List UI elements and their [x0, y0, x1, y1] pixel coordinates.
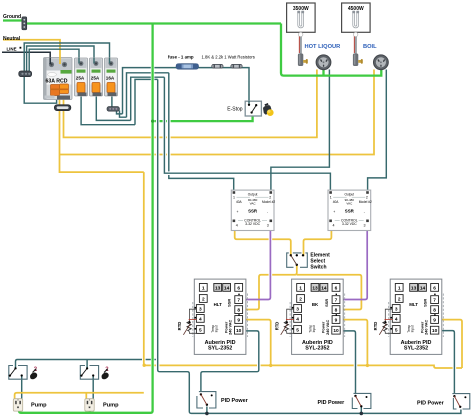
wire RCD neutral out stub b	[63, 99, 65, 106]
svg-text:Model #2: Model #2	[359, 200, 372, 204]
wire pump1 switch to receptacle	[21, 376, 23, 400]
svg-text:Input: Input	[312, 325, 316, 332]
wire riser to SSR2 feed	[131, 77, 165, 120]
wire SSR2 control minus to ESS	[304, 222, 332, 256]
svg-text:240 VAC: 240 VAC	[425, 319, 429, 334]
pump receptacle 2	[85, 399, 94, 411]
junction switch1 on bottom bus	[205, 412, 209, 416]
wire PID bottom hot bus stub sw2	[360, 407, 362, 414]
svg-text:8: 8	[433, 308, 436, 314]
junction PID1 t9 on neutral bus	[269, 364, 272, 367]
wire RCD bottom-left loop	[24, 77, 56, 104]
svg-text:Input: Input	[411, 325, 415, 332]
svg-text:2: 2	[398, 297, 401, 303]
junction neutral bus corner	[143, 364, 146, 367]
svg-text:14: 14	[420, 285, 426, 291]
svg-text:SSR: SSR	[324, 299, 329, 307]
wire SSR1 control minus to ESS	[235, 222, 291, 256]
svg-text:Neutral: Neutral	[3, 36, 21, 42]
wire block staircase to SSR1 riser	[120, 111, 127, 118]
RTD probe 2	[274, 309, 294, 335]
svg-text:7: 7	[433, 298, 436, 304]
svg-text:MLT: MLT	[409, 302, 418, 307]
resistor R2 2.2K	[231, 64, 242, 68]
SSR U1	[231, 190, 275, 230]
svg-text:6: 6	[335, 285, 338, 291]
svg-text:25A: 25A	[76, 76, 85, 81]
wire PID3 t10 to switch3	[438, 331, 455, 394]
svg-text:13: 13	[312, 285, 318, 291]
svg-text:SSR: SSR	[345, 209, 355, 214]
PID power switch 2	[352, 393, 371, 408]
wire PID1 t10 to switch1	[201, 331, 259, 392]
svg-text:1: 1	[398, 285, 401, 291]
svg-text:13: 13	[411, 285, 417, 291]
wire PID1 t9 neutral	[243, 320, 271, 366]
Auberin PID 1 (HLT)	[193, 279, 248, 354]
wire ground bus top left	[3, 19, 22, 21]
svg-text:1: 1	[233, 196, 235, 200]
resistor R1 1.8K	[212, 64, 223, 68]
wire pump2 switch feed drop	[86, 360, 88, 369]
svg-text:4: 4	[395, 316, 398, 322]
wire BOIL outlet hot to SSR2 out	[368, 70, 387, 191]
svg-text:SSR: SSR	[248, 209, 258, 214]
svg-text:SYL-2352: SYL-2352	[305, 346, 329, 352]
element box 4500W	[342, 3, 371, 32]
svg-text:2: 2	[299, 297, 302, 303]
svg-text:25A: 25A	[91, 76, 100, 81]
svg-text:E-Stop: E-Stop	[227, 106, 243, 112]
wire SSR1 control plus purple to PID1 t7	[243, 222, 271, 300]
svg-text:PID Power: PID Power	[318, 400, 346, 406]
wire RCD-out riser C to breaker 1	[29, 49, 79, 71]
svg-text:1.8K & 2.2k 1 Watt Resistors: 1.8K & 2.2k 1 Watt Resistors	[202, 54, 255, 59]
pump switch 2	[80, 366, 98, 380]
junction ground riser estop branch	[151, 120, 154, 123]
wire stub 16A top terminal	[109, 58, 111, 64]
svg-text:14: 14	[321, 285, 327, 291]
circuit breaker 63A RCD	[44, 58, 73, 100]
wire pump2 neutral drop	[85, 393, 87, 400]
BK element cord	[354, 32, 358, 54]
svg-text:6: 6	[433, 285, 436, 291]
svg-text:3-32 VDC: 3-32 VDC	[342, 222, 357, 226]
wire breaker2 bottom loop	[96, 97, 130, 121]
svg-text:1: 1	[202, 285, 205, 291]
wire 16A breaker to block	[111, 97, 113, 107]
svg-text:13: 13	[215, 285, 221, 291]
svg-text:4: 4	[236, 224, 238, 228]
wire neutral branch to pump bus	[60, 111, 144, 173]
svg-text:fuse - 1 amp: fuse - 1 amp	[168, 54, 194, 59]
wire ground stub pump2	[89, 410, 91, 413]
svg-text:+: +	[333, 210, 335, 214]
svg-text:8: 8	[335, 308, 338, 314]
svg-text:1: 1	[299, 285, 302, 291]
svg-text:3: 3	[296, 307, 299, 313]
circuit breaker 16A	[105, 58, 118, 96]
svg-text:3500W: 3500W	[293, 6, 309, 12]
svg-text:5: 5	[296, 328, 299, 334]
PID power switch 3	[452, 394, 469, 409]
wire LINE hot to RCD	[2, 52, 50, 57]
wire fuse control line	[123, 68, 250, 114]
wire ESS common to PID2 t8	[297, 275, 362, 310]
wire neutral feed	[3, 40, 60, 57]
HL twist-lock receptacle	[316, 55, 331, 70]
wire riser to pump feed	[135, 79, 158, 124]
svg-text:VAC: VAC	[346, 202, 353, 206]
svg-text:1: 1	[330, 196, 332, 200]
svg-text:BK: BK	[312, 302, 319, 307]
svg-text:9: 9	[237, 318, 240, 324]
junction PID2 t9 on neutral bus	[366, 364, 369, 367]
wire ground bus top right	[27, 22, 281, 24]
circuit breaker 25A no2	[90, 58, 103, 96]
wire RCD neutral out stub a	[59, 99, 61, 106]
svg-text:RTD: RTD	[177, 322, 182, 331]
svg-text:Model #2: Model #2	[262, 200, 275, 204]
wire PID3 t9 neutral	[438, 320, 462, 368]
svg-text:Output: Output	[248, 193, 258, 197]
Auberin PID 2 (BK)	[290, 279, 345, 354]
svg-text:-: -	[267, 210, 268, 214]
svg-text:+: +	[237, 210, 239, 214]
wire hot main riser to bottom bus	[158, 79, 461, 413]
svg-text:VAC: VAC	[250, 202, 257, 206]
terminal block ground top	[22, 17, 27, 30]
fuse F1 1 amp	[176, 64, 198, 70]
wire PID bottom hot bus stub sw1	[206, 407, 208, 414]
wire pump hot bus	[16, 360, 158, 369]
wire RCD-out riser B to breaker 2	[27, 46, 94, 72]
svg-text:RTD: RTD	[274, 322, 279, 331]
element select switch	[287, 253, 308, 267]
svg-text:4: 4	[296, 316, 299, 322]
BOIL twist-lock receptacle	[374, 55, 389, 70]
svg-text:3: 3	[199, 307, 202, 313]
svg-text:10: 10	[333, 328, 339, 334]
svg-text:HOT LIQOUR: HOT LIQOUR	[305, 44, 341, 50]
wire riser to SSR1 feed	[127, 73, 169, 117]
HL element cord	[299, 32, 303, 54]
svg-text:Input: Input	[215, 325, 219, 332]
svg-text:4500W: 4500W	[348, 6, 364, 12]
PID power switch 1	[197, 392, 216, 408]
wire SSR2 feed lower	[164, 77, 330, 190]
svg-text:8: 8	[237, 308, 240, 314]
E-stop button icon	[263, 104, 274, 116]
svg-text:5: 5	[199, 328, 202, 334]
svg-text:3: 3	[267, 224, 269, 228]
svg-text:SYL-2352: SYL-2352	[208, 346, 232, 352]
wire pump neutral bus	[15, 393, 144, 400]
wire pump2 switch to receptacle	[92, 376, 94, 400]
wire E-stop ground	[151, 113, 253, 121]
svg-text:14: 14	[224, 285, 230, 291]
svg-text:Pump: Pump	[103, 402, 119, 408]
wire PID2 t9 neutral	[340, 320, 368, 366]
wire RCD-out riser A to 16A breaker	[24, 43, 109, 72]
wire neutral branch BOIL outlet	[60, 70, 375, 155]
svg-text:LINE: LINE	[7, 46, 17, 51]
svg-text:240 VAC: 240 VAC	[326, 319, 330, 334]
svg-text:Output: Output	[345, 193, 355, 197]
wire SSR2 control plus purple to PID2 t7	[340, 222, 367, 300]
terminal block neutral out	[54, 105, 70, 111]
SSR U2	[328, 190, 372, 230]
wire stub RCD top hot	[49, 58, 51, 65]
pump switch 1 icon with red 2	[30, 367, 38, 379]
svg-text:BOIL: BOIL	[363, 44, 377, 50]
svg-text:2: 2	[202, 297, 205, 303]
svg-text:7: 7	[335, 298, 338, 304]
svg-text:Ground: Ground	[3, 14, 21, 20]
HL plug	[298, 54, 308, 67]
wire neutral branch HL outlet	[64, 70, 317, 138]
svg-text:3: 3	[395, 307, 398, 313]
svg-text:10: 10	[236, 328, 242, 334]
svg-text:3-32 VDC: 3-32 VDC	[245, 222, 260, 226]
wire breaker1 bottom loop	[81, 97, 135, 125]
svg-text:5: 5	[395, 328, 398, 334]
svg-text:9: 9	[433, 318, 436, 324]
RTD probe 1	[177, 309, 197, 335]
wire PID neutral bus	[144, 172, 462, 368]
svg-text:3: 3	[364, 224, 366, 228]
svg-text:-: -	[364, 210, 365, 214]
pump receptacle 1	[13, 399, 22, 411]
svg-text:SSR: SSR	[227, 299, 232, 307]
svg-text:240 VAC: 240 VAC	[229, 319, 233, 334]
svg-text:SYL-2352: SYL-2352	[404, 346, 428, 352]
wire ground bottom bus and riser	[19, 24, 153, 413]
wire block staircase to fuse riser	[117, 111, 123, 114]
svg-text:HLT: HLT	[214, 302, 223, 307]
wire ground branch outlets	[281, 24, 381, 76]
wire ground stub HL outlet	[322, 69, 324, 76]
svg-text:6: 6	[237, 285, 240, 291]
svg-text:7: 7	[237, 298, 240, 304]
junction switch2 on bottom bus	[360, 412, 364, 416]
RTD probe 3	[373, 309, 393, 335]
terminal block 16A out	[107, 107, 119, 112]
E-stop switch	[245, 101, 261, 116]
wire stub breaker1 top terminal	[78, 58, 80, 64]
svg-text:SSR: SSR	[423, 299, 428, 307]
svg-text:PID Power: PID Power	[221, 398, 249, 404]
svg-text:Pump: Pump	[31, 402, 47, 408]
wire SSR1 feed lower	[169, 73, 234, 191]
svg-text:RTD: RTD	[373, 322, 378, 331]
wire stub RCD top neutral	[59, 57, 61, 64]
terminal block line riser	[19, 71, 32, 77]
circuit breaker 25A no1	[75, 58, 88, 96]
svg-text:10: 10	[432, 328, 438, 334]
element box 3500W	[287, 3, 316, 32]
svg-text:Switch: Switch	[310, 264, 326, 270]
pump switch 2 icon with red 2	[102, 367, 110, 379]
svg-text:40A: 40A	[236, 200, 243, 204]
Auberin PID 3 (MLT)	[389, 279, 444, 354]
svg-text:4: 4	[333, 224, 335, 228]
BOIL plug	[353, 54, 363, 67]
svg-text:9: 9	[335, 318, 338, 324]
pump switch 1	[9, 366, 27, 380]
wire ESS common bus	[243, 265, 297, 310]
svg-text:16A: 16A	[106, 76, 115, 81]
svg-text:PID Power: PID Power	[417, 400, 445, 406]
wire HL outlet hot to SSR1 out	[271, 70, 330, 191]
wire stub breaker2 top terminal	[93, 58, 95, 64]
svg-text:4: 4	[199, 316, 202, 322]
svg-text:40A: 40A	[333, 200, 340, 204]
wire PID2 t10 to switch2	[340, 331, 356, 394]
